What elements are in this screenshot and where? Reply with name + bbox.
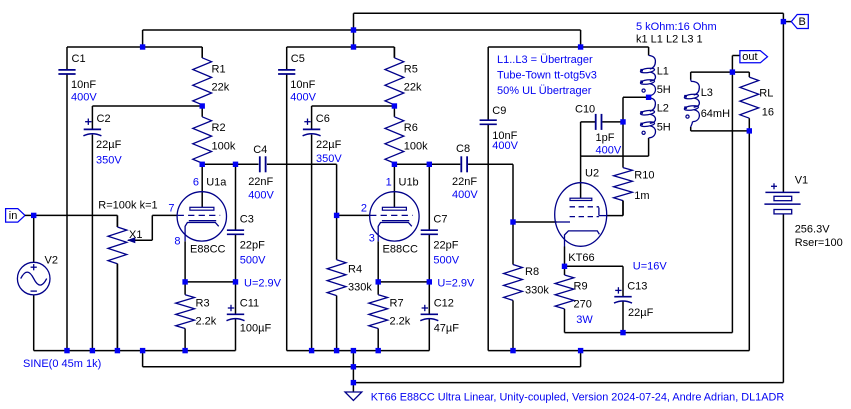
junction ground bus 3 — [351, 380, 356, 385]
resistor R4 — [327, 215, 372, 350]
wire C6 top to R5-R6 node — [312, 106, 395, 129]
wire U1b cathode lead — [377, 241, 379, 282]
wire C6 bottom lead — [311, 135, 313, 351]
junction node in — [31, 213, 36, 218]
voltage source V1 — [764, 174, 842, 248]
junction C6 ground — [309, 348, 314, 353]
svg-text:400V: 400V — [492, 140, 518, 152]
junction node out — [730, 69, 735, 74]
capacitor C3 — [227, 214, 266, 267]
wire ground bus 2 — [143, 351, 581, 367]
port flag in — [6, 209, 34, 223]
node U=2.9V stage1 — [244, 277, 282, 289]
wire B+ drop at stage1 — [142, 30, 144, 47]
capacitor C7 — [421, 214, 460, 267]
svg-text:5H: 5H — [657, 121, 671, 133]
junction KT66 cathode node — [562, 264, 567, 269]
svg-text:100µF: 100µF — [240, 322, 272, 334]
wire C7 top lead — [428, 164, 430, 230]
svg-text:47µF: 47µF — [434, 322, 460, 334]
junction stage1 ground jog — [140, 348, 145, 353]
svg-text:U=2.9V: U=2.9V — [437, 277, 475, 289]
svg-text:C6: C6 — [316, 113, 330, 125]
wire U1a anode lead — [201, 164, 203, 207]
svg-text:k1 L1 L2 L3 1: k1 L1 L2 L3 1 — [636, 33, 703, 45]
svg-text:3W: 3W — [576, 314, 593, 326]
svg-text:5H: 5H — [657, 84, 671, 96]
wire B port stub — [783, 21, 791, 23]
svg-text:22nF: 22nF — [452, 176, 477, 188]
svg-text:6: 6 — [193, 176, 199, 188]
wire C2 top to R1-R2 node — [92, 106, 202, 129]
wire KT66 grid wire — [513, 221, 557, 223]
wire C11 top lead — [235, 282, 237, 314]
svg-text:400V: 400V — [452, 189, 478, 201]
svg-text:Tube-Town tt-otg5v3: Tube-Town tt-otg5v3 — [497, 70, 597, 82]
wire stage2 supply rail — [287, 13, 395, 58]
svg-text:C4: C4 — [253, 144, 267, 156]
inductor L2 — [640, 98, 671, 138]
wire U1b cathode row — [378, 281, 429, 283]
junction ground column top — [351, 348, 356, 353]
svg-text:1pF: 1pF — [596, 132, 615, 144]
potentiometer X1 — [98, 199, 157, 350]
capacitor C9 — [480, 105, 519, 152]
svg-text:in: in — [9, 210, 18, 222]
svg-text:B: B — [799, 16, 806, 28]
junction B+ stage2 supply — [351, 44, 356, 49]
junction U1b grid R4 node — [334, 213, 339, 218]
inductor L1 — [640, 55, 671, 95]
svg-text:500V: 500V — [433, 254, 459, 266]
junction U1a anode node — [200, 162, 205, 167]
junction R5-R6 C6 node — [392, 103, 397, 108]
svg-text:10nF: 10nF — [290, 79, 315, 91]
svg-text:U=16V: U=16V — [633, 260, 668, 272]
svg-text:U=2.9V: U=2.9V — [244, 277, 282, 289]
wire C4 to U1b grid riser — [267, 164, 337, 215]
svg-text:22k: 22k — [404, 82, 422, 94]
wire KT66 cathode lead — [564, 247, 566, 267]
svg-text:C10: C10 — [575, 103, 595, 115]
capacitor C8 — [452, 143, 478, 201]
junction L3-RL bottom node — [747, 128, 752, 133]
title comment — [371, 391, 785, 403]
triode U1b — [361, 176, 419, 255]
capacitor C2 — [83, 113, 122, 166]
junction C1 ground — [64, 348, 69, 353]
junction node B to C9 — [578, 44, 583, 49]
resistor R10 — [614, 122, 655, 216]
wire U1b anode lead — [393, 164, 395, 207]
wire C9 to L1 top — [488, 47, 648, 55]
wire C13 leads — [622, 266, 624, 332]
svg-text:R7: R7 — [390, 297, 404, 309]
junction U1b anode node — [392, 162, 397, 167]
svg-text:22pF: 22pF — [433, 239, 458, 251]
svg-text:U2: U2 — [585, 167, 599, 179]
junction R1-R2 C2 node — [200, 103, 205, 108]
wire U1a anode row to C4 — [202, 163, 258, 165]
pentode U2 KT66 — [555, 167, 607, 263]
junction R4 ground — [334, 348, 339, 353]
svg-text:C1: C1 — [72, 53, 86, 65]
junction L1-L2 center tap — [646, 95, 651, 100]
svg-text:R=100k k=1: R=100k k=1 — [98, 199, 157, 211]
wire ground rail output stage — [488, 350, 749, 352]
svg-text:L2: L2 — [657, 102, 669, 114]
svg-text:R4: R4 — [348, 263, 362, 275]
svg-text:E88CC: E88CC — [190, 243, 226, 255]
svg-text:L3: L3 — [701, 87, 713, 99]
wire C9 leads — [487, 47, 489, 351]
wire V2 bottom lead — [33, 295, 35, 351]
junction C7-C12 node — [427, 279, 432, 284]
svg-text:R2: R2 — [212, 122, 226, 134]
resistor R1 — [193, 47, 230, 106]
capacitor C6 — [303, 113, 343, 165]
svg-text:R3: R3 — [196, 297, 210, 309]
port flag out — [740, 51, 768, 63]
svg-text:C2: C2 — [97, 113, 111, 125]
junction C13 bottom node — [620, 330, 625, 335]
svg-text:22µF: 22µF — [96, 139, 122, 151]
wire U1b anode row to C8 — [394, 163, 460, 165]
wire in to pot X1 — [34, 215, 118, 227]
wire C1 leads — [66, 47, 68, 351]
wire L3 top lead — [690, 72, 692, 80]
svg-text:C9: C9 — [492, 105, 506, 117]
capacitor C10 — [575, 103, 622, 156]
capacitor C13 — [614, 280, 654, 319]
resistor RL — [740, 72, 774, 131]
junction at B port — [781, 19, 786, 24]
svg-text:350V: 350V — [316, 153, 342, 165]
svg-text:400V: 400V — [290, 92, 316, 104]
wire ground bus 3 to V1 minus — [353, 214, 783, 383]
junction U1a cathode node — [182, 279, 187, 284]
junction C2 ground — [90, 348, 95, 353]
svg-text:22k: 22k — [212, 82, 230, 94]
svg-text:L1..L3 = Übertrager: L1..L3 = Übertrager — [497, 54, 593, 66]
svg-text:22µF: 22µF — [316, 139, 342, 151]
junction output stage ground jog — [578, 348, 583, 353]
svg-text:R1: R1 — [212, 63, 226, 75]
spice directive k1 — [636, 33, 703, 45]
svg-text:8: 8 — [174, 235, 180, 247]
inductor L3 — [684, 79, 730, 127]
wire R10 bottom to KT66 g2 — [607, 201, 623, 216]
resistor R2 — [193, 106, 236, 164]
junction C3 top node — [233, 162, 238, 167]
svg-text:400V: 400V — [248, 189, 274, 201]
wire X1 wiper to U1a grid — [128, 215, 177, 240]
wire out node row — [691, 56, 750, 73]
wire stage1 supply rail — [67, 47, 202, 58]
junction B+ stage1 supply — [140, 44, 145, 49]
wire U1a cathode lead — [184, 241, 186, 282]
svg-text:330k: 330k — [348, 281, 372, 293]
resistor R3 — [176, 282, 217, 351]
svg-text:10nF: 10nF — [71, 79, 96, 91]
capacitor C5 — [278, 53, 317, 103]
svg-text:1: 1 — [386, 176, 392, 188]
resistor R8 — [504, 222, 550, 351]
node U=2.9V stage2 — [437, 277, 475, 289]
svg-text:2: 2 — [361, 202, 367, 214]
wire C11 bottom lead — [235, 318, 237, 351]
svg-text:1m: 1m — [634, 190, 649, 202]
wire L3 bottom to RL bottom — [691, 127, 750, 131]
junction C7-C8 node — [427, 162, 432, 167]
svg-text:22pF: 22pF — [240, 239, 265, 251]
wire C3 bottom lead — [235, 235, 237, 282]
svg-text:100k: 100k — [404, 140, 428, 152]
junction KT66 grid R8 node — [510, 219, 515, 224]
junction ground bus 2 — [351, 364, 356, 369]
junction R7 ground — [376, 348, 381, 353]
svg-text:R10: R10 — [634, 169, 654, 181]
resistor R9 — [555, 266, 593, 332]
wire ground rail stage1 — [34, 350, 236, 352]
capacitor C4 — [248, 144, 274, 202]
capacitor C11 — [227, 297, 272, 334]
svg-text:L1: L1 — [657, 65, 669, 77]
junction X1 ground — [115, 348, 120, 353]
junction C3-C11 node — [233, 279, 238, 284]
capacitor C1 — [58, 53, 97, 103]
wire ground flag column — [352, 351, 354, 392]
resistor R7 — [369, 282, 411, 351]
junction B+ rail at stage drop — [351, 27, 356, 32]
junction R3 ground — [182, 348, 187, 353]
svg-text:RL: RL — [759, 88, 773, 100]
svg-text:R6: R6 — [404, 122, 418, 134]
wire C10 right lead — [602, 121, 623, 123]
ground flag — [345, 392, 362, 401]
svg-text:64mH: 64mH — [701, 108, 730, 120]
svg-text:7: 7 — [168, 202, 174, 214]
wire RL bottom lead — [748, 130, 750, 351]
wire B+ rail second — [143, 30, 581, 47]
svg-text:350V: 350V — [96, 154, 122, 166]
wire R9 bottom row to out riser — [565, 72, 733, 333]
svg-text:V1: V1 — [795, 174, 808, 186]
wire transformer tap to C10 node — [623, 97, 649, 122]
wire U1a cathode row — [185, 281, 235, 283]
comment transformer note — [497, 54, 597, 97]
resistor R5 — [385, 47, 422, 106]
svg-text:100k: 100k — [212, 140, 236, 152]
svg-text:3: 3 — [369, 232, 375, 244]
wire C3 top lead — [235, 164, 237, 230]
svg-text:C12: C12 — [434, 297, 454, 309]
svg-text:22µF: 22µF — [628, 307, 654, 319]
svg-text:22nF: 22nF — [248, 176, 273, 188]
svg-text:C7: C7 — [433, 214, 447, 226]
svg-text:R8: R8 — [525, 266, 539, 278]
wire U1b grid wire — [337, 214, 370, 216]
svg-text:R5: R5 — [404, 63, 418, 75]
wire C5 leads — [286, 47, 288, 351]
svg-text:U1b: U1b — [399, 176, 419, 188]
svg-text:C11: C11 — [240, 297, 259, 309]
svg-text:400V: 400V — [71, 92, 97, 104]
svg-text:330k: 330k — [525, 284, 549, 296]
svg-text:C5: C5 — [291, 53, 305, 65]
wire C8 to KT66 grid riser — [468, 164, 513, 222]
svg-text:50% UL Übertrager: 50% UL Übertrager — [497, 85, 592, 97]
voltage source V2 — [17, 254, 101, 370]
svg-text:5 kOhm:16 Ohm: 5 kOhm:16 Ohm — [636, 21, 717, 33]
svg-text:E88CC: E88CC — [383, 243, 419, 255]
svg-text:C13: C13 — [627, 280, 647, 292]
svg-text:SINE(0 45m 1k): SINE(0 45m 1k) — [23, 358, 101, 370]
junction C10-R10 tap node — [620, 119, 625, 124]
svg-text:2.2k: 2.2k — [196, 315, 217, 327]
capacitor C12 — [420, 297, 459, 334]
svg-text:256.3V: 256.3V — [795, 223, 831, 235]
wire KT66 anode lead — [580, 156, 582, 198]
comment turns ratio — [636, 21, 717, 33]
wire C12 leads — [428, 282, 430, 351]
wire KT66 cathode row — [565, 265, 624, 267]
wire top B+ rail to B port — [354, 13, 784, 192]
port flag B — [791, 15, 808, 29]
svg-text:400V: 400V — [596, 145, 622, 157]
wire C7 bottom lead — [428, 235, 430, 282]
triode U1a — [168, 176, 227, 255]
wire C10 left lead — [581, 122, 595, 156]
resistor R6 — [385, 106, 428, 164]
svg-text:U1a: U1a — [206, 176, 227, 188]
junction R8 ground — [510, 348, 515, 353]
svg-text:16: 16 — [762, 107, 774, 119]
svg-text:C8: C8 — [456, 143, 470, 155]
svg-text:2.2k: 2.2k — [390, 315, 411, 327]
wire ground rail stage2 — [287, 350, 430, 352]
svg-text:270: 270 — [574, 298, 592, 310]
svg-text:out: out — [742, 51, 757, 63]
junction U1b cathode node — [376, 279, 381, 284]
svg-text:C3: C3 — [240, 214, 254, 226]
wire V2 top lead — [33, 215, 35, 262]
wire C2 bottom lead — [91, 135, 93, 351]
svg-text:500V: 500V — [240, 254, 266, 266]
svg-text:KT66 E88CC Ultra Linear, Unity: KT66 E88CC Ultra Linear, Unity-coupled, … — [371, 391, 785, 403]
node U=16V — [633, 260, 668, 272]
svg-text:KT66: KT66 — [568, 252, 594, 264]
svg-text:Rser=100: Rser=100 — [795, 237, 843, 249]
svg-text:R9: R9 — [574, 280, 588, 292]
svg-text:V2: V2 — [45, 254, 58, 266]
svg-text:X1: X1 — [129, 229, 142, 241]
wire X1 bottom lead — [116, 264, 118, 351]
wire KT66 anode node row — [581, 138, 649, 156]
